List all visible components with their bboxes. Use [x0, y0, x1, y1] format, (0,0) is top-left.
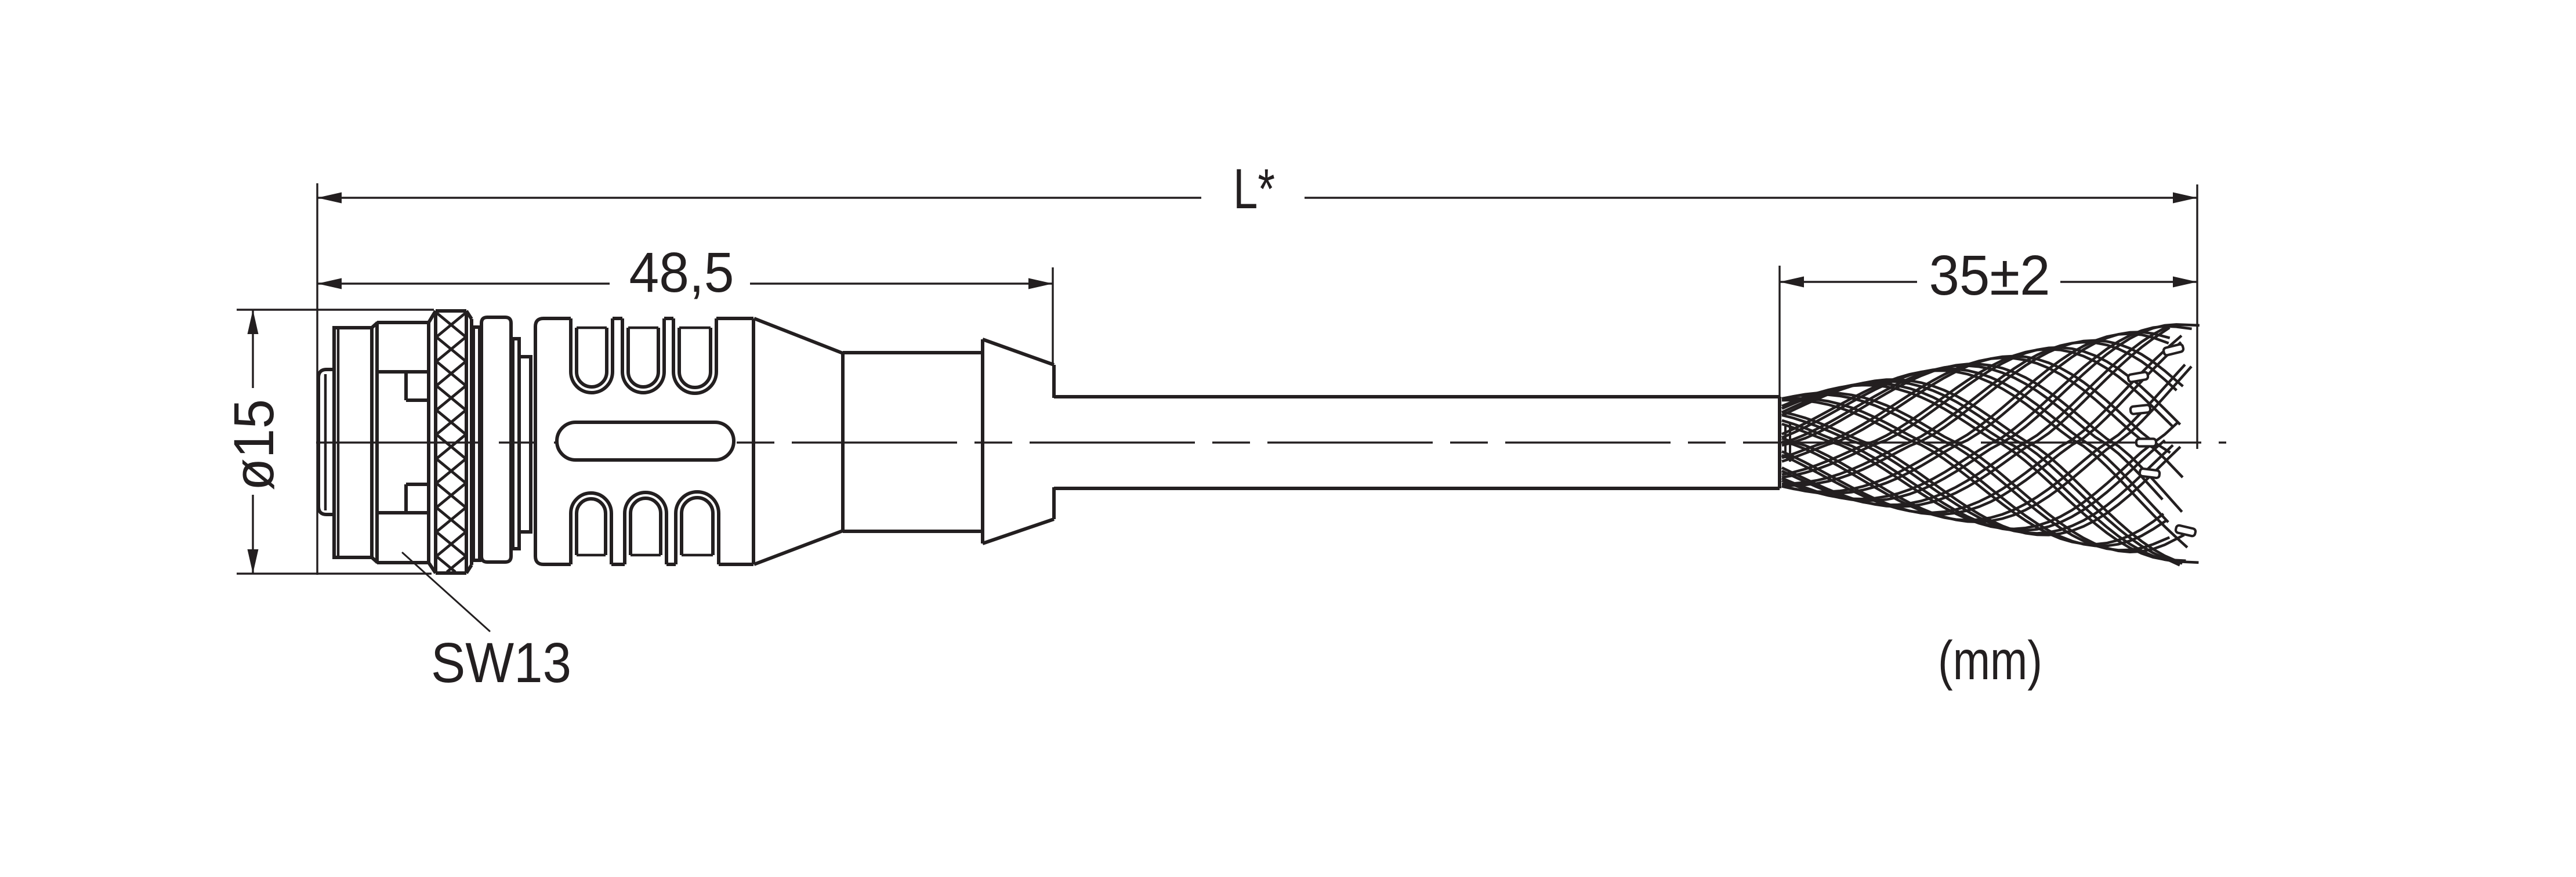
grip top slot 2	[622, 318, 664, 393]
label SW13	[431, 631, 571, 694]
grip top slot 3	[673, 318, 716, 393]
extension line at bell rear	[1052, 267, 1053, 365]
dimension text L*	[1233, 157, 1275, 220]
grip bottom slot 2	[625, 492, 666, 564]
dimension line 48.5	[317, 278, 1053, 289]
gasket disc C	[513, 339, 519, 549]
dimension line L*	[317, 193, 2197, 204]
svg-text:48,5: 48,5	[629, 241, 734, 304]
washer ring B (rounded)	[481, 317, 511, 562]
dimension text 48,5	[629, 241, 734, 304]
units note (mm)	[1938, 630, 2042, 691]
cable jacket lines	[1054, 397, 1780, 488]
dimension text 35±2	[1929, 244, 2050, 307]
svg-text:(mm): (mm)	[1938, 630, 2042, 691]
connector front cap ring	[334, 328, 372, 557]
gasket disc D	[519, 357, 531, 532]
hex nut flat section	[377, 322, 429, 563]
extension line at connector front face	[316, 183, 318, 575]
svg-text:ø15: ø15	[222, 399, 285, 491]
taper to neck	[754, 318, 983, 564]
grip body outline	[535, 318, 544, 564]
svg-text:SW13: SW13	[431, 631, 571, 694]
svg-text:35±2: 35±2	[1929, 244, 2050, 307]
grip top slot 1	[571, 318, 613, 393]
grip bottom slot 1	[571, 493, 611, 564]
washer ring A	[473, 327, 480, 560]
braided shield lattice	[1782, 324, 2200, 565]
grip bottom slot 3	[676, 492, 719, 564]
leader line to wrench flats	[403, 553, 490, 631]
extension line at braid tip	[2196, 184, 2198, 449]
cap-to-nut chamfer edges	[372, 322, 378, 563]
dimension line diameter 15	[248, 310, 259, 574]
svg-text:L*: L*	[1233, 157, 1275, 220]
grip body edges and right face	[544, 318, 753, 564]
knurl crosshatch pattern	[437, 313, 466, 572]
extension lines for diameter 15	[237, 310, 434, 574]
centerline (dash-dot axis)	[316, 441, 2226, 443]
dimension line 35 plus-minus 2	[1780, 277, 2197, 288]
extension line at cable end	[1778, 266, 1780, 397]
label window (rounded)	[557, 422, 734, 460]
strain-relief bell	[983, 339, 1054, 543]
dimension text ø15	[222, 399, 285, 491]
connector front socket tube	[318, 369, 334, 514]
coupling nut knurled band outline	[429, 311, 472, 573]
braid apex strand marks	[1785, 422, 1790, 462]
cut wire end caps	[2128, 344, 2196, 537]
